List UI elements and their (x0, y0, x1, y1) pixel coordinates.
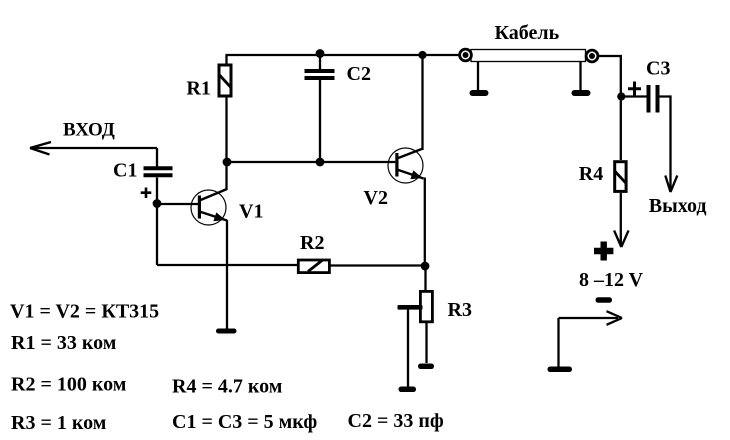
svg-text:C1 = C3 = 5 мкф: C1 = C3 = 5 мкф (172, 411, 317, 433)
svg-text:R1: R1 (186, 77, 210, 99)
svg-text:C2 = 33 пф: C2 = 33 пф (348, 410, 444, 432)
svg-text:C3: C3 (646, 58, 670, 80)
svg-text:R2: R2 (300, 232, 324, 254)
svg-text:C1: C1 (113, 160, 137, 182)
svg-text:R4 = 4.7 ком: R4 = 4.7 ком (172, 376, 282, 398)
svg-text:R3 = 1 ком: R3 = 1 ком (11, 412, 106, 434)
svg-text:V1 = V2 = КТ315: V1 = V2 = КТ315 (10, 301, 159, 323)
svg-text:R4: R4 (579, 163, 603, 185)
svg-text:C2: C2 (347, 63, 371, 85)
svg-text:8 –12 V: 8 –12 V (579, 269, 644, 291)
svg-text:V1: V1 (239, 201, 263, 223)
svg-text:V2: V2 (364, 187, 388, 209)
svg-text:R1 = 33 ком: R1 = 33 ком (11, 332, 116, 354)
svg-text:R3: R3 (448, 299, 472, 321)
svg-text:R2 = 100 ком: R2 = 100 ком (11, 374, 126, 396)
svg-text:Выход: Выход (649, 195, 707, 217)
svg-text:ВХОД: ВХОД (63, 120, 115, 141)
svg-text:Кабель: Кабель (495, 22, 560, 44)
